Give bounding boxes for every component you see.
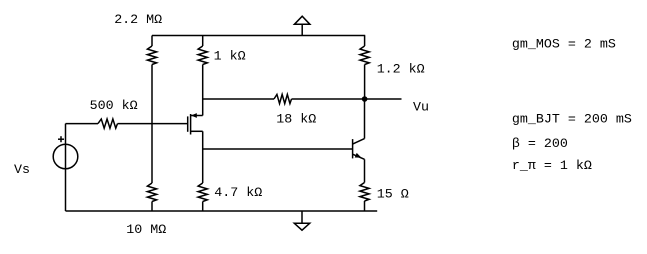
- svg-text:1 kΩ: 1 kΩ: [214, 49, 246, 64]
- svg-text:r_π = 1 kΩ: r_π = 1 kΩ: [512, 159, 592, 174]
- svg-text:Vu: Vu: [413, 101, 429, 116]
- svg-text:1.2 kΩ: 1.2 kΩ: [377, 63, 425, 78]
- svg-text:500 kΩ: 500 kΩ: [90, 99, 138, 114]
- svg-text:18 kΩ: 18 kΩ: [276, 113, 316, 128]
- svg-text:4.7 kΩ: 4.7 kΩ: [214, 186, 262, 201]
- svg-text:gm_MOS = 2 mS: gm_MOS = 2 mS: [512, 37, 616, 52]
- svg-text:15 Ω: 15 Ω: [377, 188, 409, 203]
- svg-text:gm_BJT = 200 mS: gm_BJT = 200 mS: [512, 112, 632, 127]
- svg-text:β = 200: β = 200: [512, 137, 568, 152]
- svg-text:2.2 MΩ: 2.2 MΩ: [114, 13, 162, 28]
- svg-text:Vs: Vs: [14, 163, 30, 178]
- svg-text:10 MΩ: 10 MΩ: [126, 223, 166, 238]
